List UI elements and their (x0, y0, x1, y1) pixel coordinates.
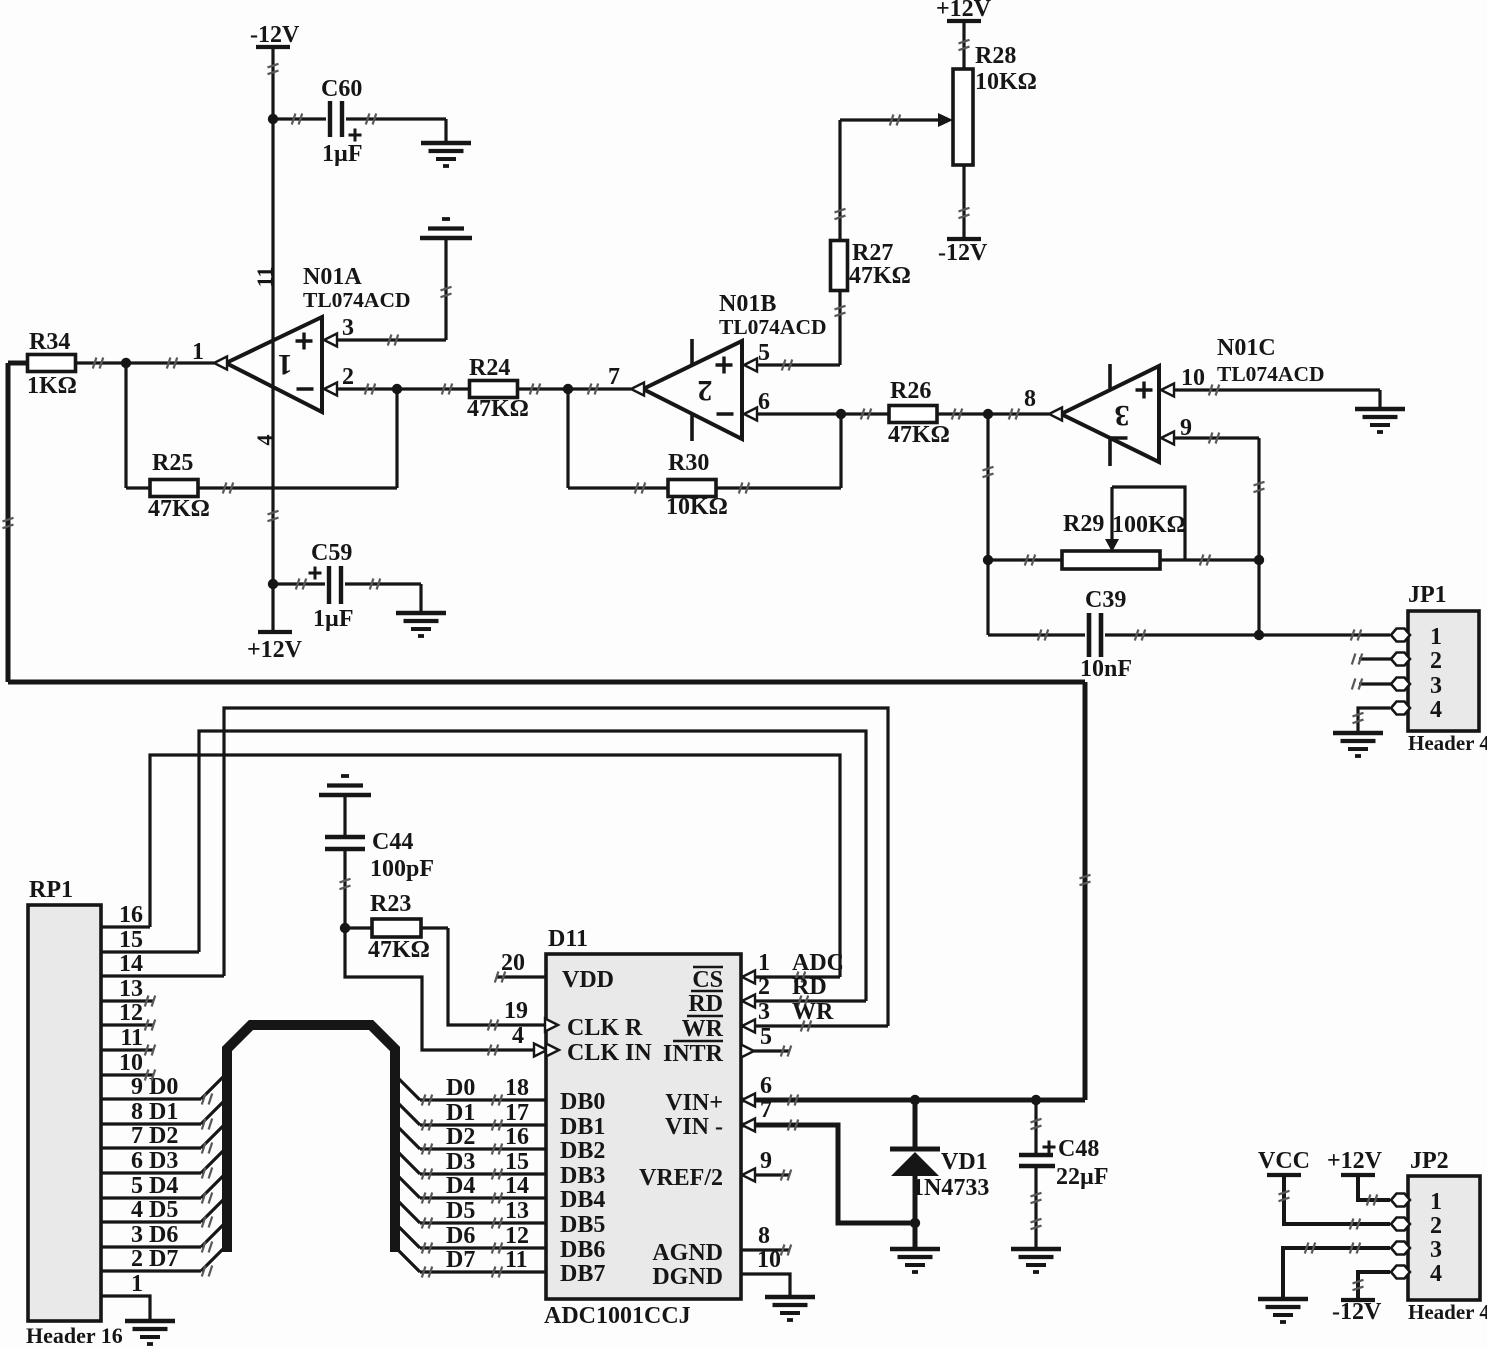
pin D11.2 RD wire (741, 974, 866, 1008)
wire R28 wiper (840, 113, 953, 127)
svg-text:1: 1 (131, 1271, 143, 1297)
pin D11.20 VDD stub (495, 950, 546, 983)
wire JP2 pin 4 to -12V (1353, 1272, 1391, 1300)
svg-text:10nF: 10nF (1080, 656, 1132, 682)
svg-text:2: 2 (698, 374, 713, 407)
svg-text:DB1: DB1 (560, 1114, 605, 1140)
node VIN-/VD1 junction (910, 1218, 920, 1228)
svg-text:+12V: +12V (247, 637, 303, 663)
svg-text:11: 11 (252, 267, 277, 288)
svg-text:8: 8 (1024, 386, 1036, 412)
svg-text:2: 2 (1430, 648, 1442, 674)
svg-text:RD: RD (792, 974, 827, 1000)
wire R34 junction down to R25 (124, 363, 127, 488)
wire C44 junction to CLK IN (D11 pin 4) (345, 928, 546, 1056)
svg-text:D7: D7 (446, 1247, 475, 1273)
wire N01A pin 3 to ground (336, 335, 446, 346)
pin D11.5 INTR stub (741, 1024, 791, 1058)
ground (JP1 pin 4) (1333, 733, 1383, 756)
svg-text:D1: D1 (446, 1100, 475, 1126)
wire rail WR (RP1.14 - D11.3) (224, 708, 888, 1026)
svg-text:R25: R25 (152, 450, 193, 476)
svg-text:VIN -: VIN - (665, 1114, 723, 1140)
svg-text:15: 15 (119, 927, 143, 953)
svg-text:C60: C60 (321, 76, 362, 102)
svg-text:-12V: -12V (938, 240, 988, 266)
potentiometer R29 100K (988, 487, 1259, 569)
svg-text:D0: D0 (446, 1075, 475, 1101)
wire JP1 pin 3 stub (1352, 679, 1391, 690)
ground (DGND) (765, 1297, 815, 1320)
node R29 left junction (983, 555, 993, 565)
svg-text:DB5: DB5 (560, 1212, 605, 1238)
svg-text:11: 11 (120, 1025, 143, 1051)
svg-text:D1: D1 (149, 1099, 178, 1125)
svg-text:5: 5 (131, 1173, 143, 1199)
wire N01A pin 2 to R24 (336, 384, 470, 395)
svg-text:N01C: N01C (1217, 335, 1276, 361)
svg-text:47KΩ: 47KΩ (368, 937, 430, 963)
svg-text:2: 2 (1430, 1213, 1442, 1239)
wire rail CS (RP1.16 - D11.1) (150, 755, 840, 977)
capacitor C60 1uF (273, 76, 446, 167)
wire rail RD (RP1.15 - D11.2) (199, 731, 866, 1001)
svg-text:1: 1 (278, 348, 293, 381)
svg-text:CS: CS (692, 967, 723, 993)
svg-text:D11: D11 (548, 926, 588, 952)
pin D11.9 VREF/2 stub (741, 1148, 791, 1182)
svg-text:6: 6 (760, 1073, 772, 1099)
resistor R26 47K (888, 378, 988, 448)
svg-text:R26: R26 (890, 378, 931, 404)
power -12V (JP2) (1332, 1299, 1382, 1325)
pin D11.19 CLK R arrow (504, 998, 558, 1032)
svg-text:-12V: -12V (1332, 1299, 1382, 1325)
svg-text:-12V: -12V (250, 22, 300, 48)
svg-text:22µF: 22µF (1056, 1164, 1109, 1190)
svg-text:9: 9 (131, 1074, 143, 1100)
svg-text:14: 14 (505, 1173, 529, 1199)
wire JP2 pin 3 to ground (1283, 1243, 1390, 1299)
svg-text:7: 7 (131, 1123, 143, 1149)
svg-text:1KΩ: 1KΩ (27, 373, 77, 399)
svg-text:+12V: +12V (936, 0, 992, 22)
wire N01C pin 9 feedback (1173, 433, 1265, 636)
power +12V (N01A supply) (247, 632, 303, 663)
svg-text:6: 6 (131, 1148, 143, 1174)
connector JP1 Header 4 (1391, 582, 1487, 755)
node C60 tap junction (268, 114, 278, 124)
svg-text:R28: R28 (975, 43, 1016, 69)
svg-text:3: 3 (131, 1222, 143, 1248)
ground (JP2 pin 3) (1258, 1299, 1308, 1322)
svg-text:C59: C59 (311, 540, 352, 566)
svg-text:16: 16 (505, 1124, 529, 1150)
node pin9/C39 junction (1254, 630, 1264, 640)
capacitor C48 22uF (1019, 1100, 1109, 1248)
svg-text:6: 6 (758, 389, 770, 415)
wire VCC to JP2 pin 2 (1279, 1175, 1391, 1230)
svg-text:R29: R29 (1063, 511, 1104, 537)
svg-text:C44: C44 (372, 829, 413, 855)
node VIN+/C48 junction (1031, 1095, 1041, 1105)
svg-text:DGND: DGND (652, 1264, 723, 1290)
svg-text:VD1: VD1 (941, 1149, 988, 1175)
resistor R34 1K (8, 329, 214, 399)
ground (N01C pin 10) (1355, 409, 1405, 432)
svg-text:10: 10 (119, 1050, 143, 1076)
svg-text:RD: RD (688, 991, 723, 1017)
svg-text:47KΩ: 47KΩ (148, 496, 210, 522)
svg-text:INTR: INTR (663, 1041, 724, 1067)
svg-text:D7: D7 (149, 1246, 178, 1272)
svg-text:16: 16 (119, 902, 143, 928)
pin D11.8 AGND stub (741, 1223, 791, 1256)
svg-text:15: 15 (505, 1149, 529, 1175)
resistor R24 47K (467, 355, 631, 422)
ground (C48) (1011, 1249, 1061, 1272)
svg-text:D6: D6 (149, 1222, 178, 1248)
svg-text:R30: R30 (668, 450, 709, 476)
ground (C44, flipped) (319, 776, 371, 795)
node N01B output junction (563, 384, 573, 488)
svg-text:4: 4 (1430, 1261, 1442, 1287)
svg-text:17: 17 (505, 1100, 529, 1126)
ground (RP1 pin 1) (125, 1321, 175, 1344)
svg-text:8: 8 (131, 1099, 143, 1125)
svg-text:13: 13 (119, 976, 143, 1002)
node pin2/R25 junction (392, 384, 402, 488)
wire JP1 pin 2 stub (1352, 654, 1391, 665)
svg-text:3: 3 (342, 315, 354, 341)
node R29 right junction (1254, 555, 1264, 565)
svg-text:100pF: 100pF (370, 856, 434, 882)
svg-text:D3: D3 (446, 1149, 475, 1175)
svg-text:3: 3 (758, 999, 770, 1025)
svg-text:D4: D4 (446, 1173, 475, 1199)
svg-text:N01B: N01B (719, 291, 776, 317)
svg-text:VDD: VDD (562, 967, 614, 993)
svg-text:20: 20 (501, 950, 525, 976)
svg-text:ADC: ADC (792, 950, 844, 976)
svg-text:19: 19 (504, 998, 528, 1024)
svg-text:1: 1 (1430, 624, 1442, 650)
wire junction to N01C pin 8 (988, 409, 1049, 420)
svg-text:3: 3 (1430, 673, 1442, 699)
capacitor C39 10nF (988, 587, 1390, 682)
bus data D0-D7 (thick) (227, 1025, 395, 1252)
svg-text:JP1: JP1 (1408, 582, 1447, 608)
svg-text:R24: R24 (469, 355, 510, 381)
svg-text:VREF/2: VREF/2 (639, 1165, 723, 1191)
svg-text:100KΩ: 100KΩ (1112, 512, 1186, 538)
svg-text:R34: R34 (29, 329, 70, 355)
svg-text:2: 2 (342, 364, 354, 390)
svg-text:14: 14 (119, 951, 143, 977)
op-amp N01A TL074ACD (192, 264, 411, 446)
svg-text:1: 1 (1430, 1189, 1442, 1215)
node R30/pin6 junction (836, 409, 846, 419)
svg-text:AGND: AGND (652, 1240, 723, 1266)
svg-text:D3: D3 (149, 1148, 178, 1174)
svg-text:D4: D4 (149, 1173, 178, 1199)
pin D11.1 CS wire (741, 950, 844, 984)
pin D11.6 VIN+ wire (bold) (741, 1073, 1085, 1107)
svg-text:5: 5 (760, 1024, 772, 1050)
svg-text:11: 11 (505, 1247, 528, 1273)
svg-text:Header 16: Header 16 (26, 1323, 123, 1348)
svg-text:1µF: 1µF (322, 141, 363, 167)
op-amp N01B TL074ACD (608, 291, 827, 441)
wires D11 data pins DB0-DB7 with bus taps (395, 1075, 546, 1278)
node R26/N01C junction (983, 409, 993, 419)
svg-text:CLK R: CLK R (567, 1015, 643, 1041)
power -12V (R28 bottom) (938, 239, 988, 266)
ground (VD1) (890, 1249, 940, 1272)
resistor R27 47K (831, 120, 911, 365)
svg-text:WR: WR (682, 1016, 724, 1042)
capacitor C44 100pF (325, 795, 434, 928)
svg-text:2: 2 (758, 974, 770, 1000)
resistor R30 10K (feedback) (568, 414, 841, 520)
connector RP1 Header 16 (26, 877, 225, 1348)
svg-text:47KΩ: 47KΩ (467, 396, 529, 422)
svg-text:+12V: +12V (1327, 1148, 1383, 1174)
svg-text:R23: R23 (370, 891, 411, 917)
node VIN+/VD1 junction (910, 1095, 920, 1105)
svg-text:DB6: DB6 (560, 1237, 605, 1263)
svg-text:DB4: DB4 (560, 1187, 605, 1213)
svg-text:4: 4 (252, 435, 277, 446)
svg-text:10KΩ: 10KΩ (666, 494, 728, 520)
svg-text:ADC1001CCJ: ADC1001CCJ (544, 1303, 691, 1329)
svg-text:9: 9 (760, 1148, 772, 1174)
wire -12V vertical through N01A (pin 11 to pin 4) x=273 (268, 47, 279, 632)
svg-text:RP1: RP1 (29, 877, 73, 903)
wire N01B pin 6 to R26 (756, 409, 889, 420)
svg-text:Header 4: Header 4 (1408, 731, 1487, 755)
svg-text:1: 1 (192, 339, 204, 365)
ground (C60) (421, 119, 471, 166)
power VCC (JP2) (1258, 1148, 1310, 1175)
svg-text:D5: D5 (446, 1198, 475, 1224)
svg-text:10: 10 (1181, 365, 1205, 391)
power +12V (R28 top) (936, 0, 992, 22)
svg-text:D2: D2 (149, 1123, 178, 1149)
node C44/R23 junction (340, 923, 350, 933)
svg-text:5: 5 (758, 340, 770, 366)
svg-text:1µF: 1µF (313, 606, 354, 632)
svg-text:47KΩ: 47KΩ (849, 263, 911, 289)
svg-text:WR: WR (792, 999, 834, 1025)
op-amp N01C TL074ACD (1024, 335, 1325, 466)
diode VD1 1N4733 zener (890, 1100, 989, 1248)
svg-text:DB3: DB3 (560, 1163, 605, 1189)
wire N01B pin 5 to R27 (756, 360, 840, 371)
wire R23 to CLK R (D11 pin 19) (448, 928, 546, 1031)
svg-text:13: 13 (505, 1198, 529, 1224)
resistor R23 47K (345, 891, 448, 963)
svg-text:TL074ACD: TL074ACD (719, 315, 827, 339)
svg-text:D5: D5 (149, 1197, 178, 1223)
ground (N01A pin 3, flipped) (420, 219, 472, 340)
svg-text:7: 7 (608, 364, 620, 390)
svg-text:4: 4 (131, 1197, 143, 1223)
svg-text:18: 18 (505, 1075, 529, 1101)
svg-text:DB7: DB7 (560, 1261, 605, 1287)
svg-text:47KΩ: 47KΩ (888, 422, 950, 448)
svg-text:1: 1 (758, 950, 770, 976)
svg-text:VIN+: VIN+ (665, 1090, 723, 1116)
node C59 tap junction (268, 579, 278, 589)
pin D11.10 DGND wire (741, 1247, 790, 1296)
svg-text:JP2: JP2 (1410, 1148, 1449, 1174)
potentiometer R28 10K (953, 21, 1037, 239)
svg-text:N01A: N01A (303, 264, 362, 290)
svg-text:4: 4 (512, 1023, 524, 1049)
svg-text:3: 3 (1430, 1237, 1442, 1263)
IC D11 ADC1001CCJ (544, 926, 741, 1329)
svg-text:12: 12 (505, 1223, 529, 1249)
svg-text:TL074ACD: TL074ACD (1217, 362, 1325, 386)
wire N01C pin 10 to ground (1173, 385, 1380, 409)
svg-text:12: 12 (119, 1000, 143, 1026)
svg-text:D2: D2 (446, 1124, 475, 1150)
svg-text:1N4733: 1N4733 (912, 1175, 989, 1201)
node N01A output junction (121, 358, 131, 368)
svg-text:Header 4: Header 4 (1408, 1300, 1487, 1324)
resistor R25 47K (126, 450, 397, 522)
svg-text:DB2: DB2 (560, 1138, 605, 1164)
svg-text:TL074ACD: TL074ACD (303, 288, 411, 312)
wire bold feedback net (R34 left / around bottom / to VIN+) (3, 363, 1091, 1100)
svg-text:CLK IN: CLK IN (567, 1040, 652, 1066)
svg-text:7: 7 (760, 1097, 772, 1123)
svg-text:DB0: DB0 (560, 1089, 605, 1115)
wire +12V to JP2 pin 1 (1358, 1175, 1390, 1206)
connector JP2 Header 4 (1391, 1148, 1487, 1324)
svg-text:4: 4 (1430, 697, 1442, 723)
svg-text:D6: D6 (446, 1223, 475, 1249)
pin D11.4 CLK IN arrows (512, 1023, 559, 1057)
power +12V (JP2) (1327, 1148, 1383, 1175)
svg-text:3: 3 (1115, 399, 1130, 432)
svg-text:10: 10 (757, 1247, 781, 1273)
capacitor C59 1uF (273, 540, 421, 632)
svg-text:2: 2 (131, 1246, 143, 1272)
ground (C59) (396, 584, 446, 636)
wire JP1 pin 4 to ground (1353, 708, 1391, 731)
svg-text:C48: C48 (1058, 1136, 1099, 1162)
power -12V (top left) (250, 22, 300, 48)
pin D11.7 VIN- wire (bold) (741, 1097, 915, 1223)
wire pin8 node down to R29/C39 (983, 414, 994, 635)
svg-text:C39: C39 (1085, 587, 1126, 613)
svg-text:8: 8 (758, 1223, 770, 1249)
pin D11.3 WR wire (741, 999, 888, 1033)
svg-text:VCC: VCC (1258, 1148, 1310, 1174)
svg-text:10KΩ: 10KΩ (975, 69, 1037, 95)
